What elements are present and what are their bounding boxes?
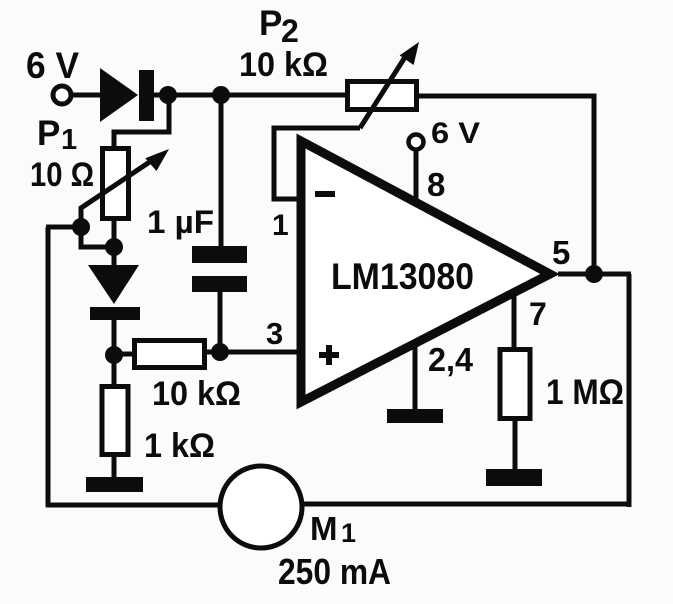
node junction capacitor top: [212, 86, 230, 104]
wire capacitor bottom: [218, 292, 223, 354]
terminal 6V input: [53, 86, 71, 104]
motor M1: [220, 466, 302, 548]
svg-text:10 Ω: 10 Ω: [30, 156, 94, 194]
wire wiper down to diode node: [81, 227, 114, 247]
wire node to 1k: [112, 355, 117, 386]
potentiometer P2 arrow: [360, 42, 419, 128]
wire D2 to node: [112, 320, 117, 358]
resistor 1M vertical: [500, 350, 530, 419]
wire pin 7: [512, 296, 517, 347]
node junction after D1: [159, 86, 177, 104]
wire diode to P2: [154, 93, 348, 98]
svg-text:1: 1: [272, 209, 289, 242]
svg-text:10 kΩ: 10 kΩ: [152, 375, 241, 413]
terminal 6V op-amp supply: [409, 135, 424, 150]
op-amp U1 LM13080: [301, 141, 550, 402]
wire right rail down: [627, 274, 632, 507]
svg-text:10 kΩ: 10 kΩ: [239, 46, 328, 84]
svg-text:1: 1: [61, 124, 77, 156]
node P1 bottom: [105, 238, 123, 256]
wire P2 right to corner: [419, 96, 594, 274]
svg-text:LM13080: LM13080: [331, 256, 474, 297]
svg-text:250 mA: 250 mA: [278, 551, 391, 592]
wire node to 10k resistor: [114, 352, 134, 357]
resistor 10k horizontal: [135, 341, 205, 368]
svg-text:3: 3: [266, 316, 283, 351]
wire pin 8: [414, 150, 419, 200]
node D2 bottom: [105, 346, 123, 364]
svg-text:1: 1: [341, 518, 356, 548]
svg-text:8: 8: [427, 166, 445, 203]
wire 10k to op-amp pin 3: [206, 350, 299, 355]
ground pin 2,4: [387, 409, 443, 423]
wire pin 2,4: [413, 346, 418, 411]
potentiometer P1 arrow: [81, 149, 169, 226]
diode D2: [88, 265, 140, 320]
ground below 1k: [86, 477, 143, 492]
svg-text:2: 2: [281, 13, 299, 49]
svg-text:P: P: [259, 4, 282, 43]
wire 1M to ground: [513, 419, 518, 471]
wire bottom left: [46, 503, 219, 508]
svg-text:2,4: 2,4: [428, 341, 474, 378]
wire capacitor top: [219, 95, 224, 248]
wire output pin 5: [558, 272, 631, 277]
svg-text:7: 7: [529, 296, 547, 332]
wire left rail vertical: [46, 227, 51, 507]
wire 1k to ground: [112, 456, 117, 480]
ground below 1M: [486, 469, 542, 486]
wire wiper to left rail: [46, 225, 81, 230]
node output junction: [585, 265, 603, 283]
wire terminal to diode D1: [71, 93, 102, 98]
svg-text:P: P: [37, 114, 60, 153]
wire bottom right: [303, 502, 631, 507]
capacitor C1: [192, 246, 247, 292]
svg-text:5: 5: [552, 234, 570, 271]
wire pin1 from P2 wiper: [274, 128, 360, 199]
minus input mark: [315, 191, 335, 197]
wire P1 bottom to diode D2: [112, 219, 117, 266]
potentiometer P1 body: [103, 149, 129, 219]
plus input mark: [319, 345, 339, 365]
wire D1 node down to P1 top: [114, 95, 169, 148]
potentiometer P2 body: [348, 82, 417, 110]
svg-text:1 kΩ: 1 kΩ: [144, 427, 215, 465]
svg-text:1 µF: 1 µF: [147, 204, 214, 240]
svg-text:M: M: [310, 510, 338, 547]
diode D1: [100, 68, 154, 122]
svg-text:1 MΩ: 1 MΩ: [546, 373, 624, 412]
resistor 1k vertical: [102, 387, 128, 455]
svg-text:6 V: 6 V: [26, 45, 79, 86]
svg-text:6 V: 6 V: [431, 117, 480, 150]
node pin3 junction: [211, 343, 229, 361]
node P1 wiper: [72, 218, 90, 236]
